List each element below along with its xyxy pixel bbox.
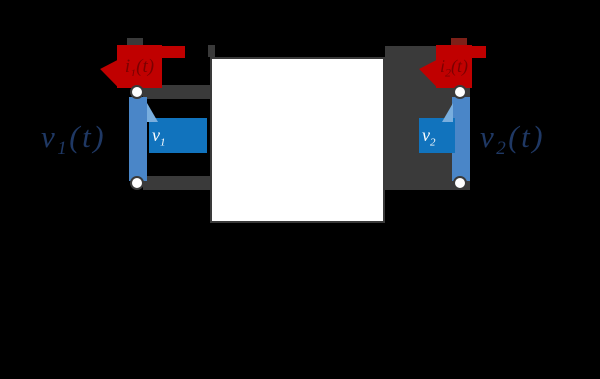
label v2(t) — [480, 119, 545, 160]
label v1(t) — [41, 119, 106, 160]
red tail i2 — [470, 46, 486, 58]
voltage label box v1 — [149, 118, 207, 153]
two-port box U1 — [210, 57, 385, 223]
gray nub box corner — [208, 45, 215, 57]
voltage arrow bar V2 — [452, 97, 470, 181]
red-gray stub top-right — [451, 38, 467, 48]
voltage arrowhead V1 — [146, 103, 160, 123]
voltage arrowhead V2 — [440, 103, 454, 123]
current label box i2 — [436, 45, 472, 88]
arrowhead I2 — [415, 47, 447, 91]
gray slab right — [385, 46, 470, 190]
red connector left — [128, 76, 144, 88]
gray stub top-left — [127, 38, 143, 58]
terminal node bottom-right — [453, 176, 467, 190]
terminal node bottom-left — [130, 176, 144, 190]
red connector right — [452, 76, 468, 88]
current label box i1 — [117, 45, 162, 88]
voltage label box v2 — [419, 118, 455, 153]
caption block (black on black) — [160, 288, 600, 359]
arrowhead I1 — [96, 47, 128, 91]
voltage arrow bar V1 — [129, 97, 147, 181]
gray band left upper wire — [143, 85, 210, 99]
terminal node top-right — [453, 85, 467, 99]
gray band left lower wire — [143, 176, 210, 190]
red tail i1 — [160, 46, 185, 58]
terminal node top-left — [130, 85, 144, 99]
